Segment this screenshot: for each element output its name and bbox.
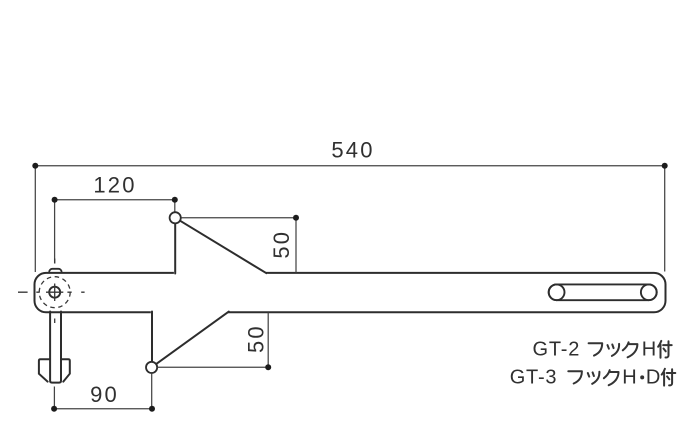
dimension 120 line: [55, 199, 175, 201]
slot right circle: [641, 284, 657, 300]
dimension 540 dot left: [32, 163, 38, 169]
bottom gusset vertical edge: [151, 312, 153, 364]
dimension 90 extension line right: [151, 374, 153, 409]
kana small tsu line2: [588, 372, 600, 384]
dimension bottom 50 dot: [265, 364, 271, 370]
svg-text:GT-3: GT-3: [510, 367, 558, 389]
dimension 540 extension line right: [664, 168, 666, 272]
rod top tab above arm: [49, 269, 61, 278]
bottom gusset diagonal edge: [156, 312, 229, 365]
pivot hole: [49, 287, 60, 298]
svg-text:540: 540: [331, 138, 374, 163]
rod collar right: [61, 359, 70, 381]
hanger rod below arm: [50, 312, 61, 383]
kana small tsu line1: [608, 344, 620, 356]
svg-text:H: H: [642, 339, 656, 361]
svg-text:50: 50: [269, 230, 294, 259]
dimension 90 dot left: [51, 406, 57, 412]
dimension 120 dot left: [52, 197, 58, 203]
top gusset fill: [174, 217, 269, 275]
kana ku line2: [604, 370, 619, 385]
kanji fu(tsuki) line1: [658, 341, 672, 358]
dimension 120 extension line right: [174, 202, 176, 212]
dimension 540 line: [35, 165, 664, 167]
middle dot line2: [640, 375, 644, 379]
top gusset diagonal edge: [180, 221, 266, 274]
dimension 90 extension line left: [53, 387, 55, 409]
dimension bottom 50 vertical line: [267, 313, 269, 368]
svg-text:H: H: [622, 367, 636, 389]
pivot horizontal centerline: [18, 291, 85, 293]
pivot dashed circle: [39, 277, 70, 308]
slot left circle: [549, 284, 565, 300]
kana ku line1: [623, 342, 638, 357]
pivot vertical centerline: [54, 259, 56, 324]
dimension 540 dot right: [662, 163, 668, 169]
dimension 90 dot right: [149, 406, 155, 412]
bottom hook circle: [146, 362, 157, 373]
dimension 540 extension line left: [34, 168, 36, 272]
svg-text:90: 90: [90, 382, 119, 407]
dimension 120 dot right: [172, 197, 178, 203]
dimension top 50 vertical line: [295, 218, 297, 273]
bottom gusset fill: [151, 311, 230, 369]
svg-text:D: D: [646, 367, 660, 389]
arm body: [35, 273, 666, 312]
svg-text:120: 120: [93, 173, 136, 198]
dimension 120 extension line left: [54, 202, 56, 264]
top gusset vertical edge: [174, 222, 176, 274]
kana fu line1: [589, 343, 603, 355]
dimension top 50 connector line: [182, 217, 297, 219]
dimension 90 line: [54, 408, 152, 410]
slot in arm right end: [549, 284, 657, 300]
rod collar left: [39, 359, 50, 381]
svg-text:50: 50: [244, 324, 269, 353]
kanji fu(tsuki) line2: [662, 369, 676, 386]
dimension top 50 dot: [293, 215, 299, 221]
dimension bottom 50 connector line: [157, 366, 268, 368]
svg-text:GT-2: GT-2: [533, 339, 581, 361]
kana fu line2: [568, 371, 582, 383]
top hook circle H: [170, 212, 181, 223]
